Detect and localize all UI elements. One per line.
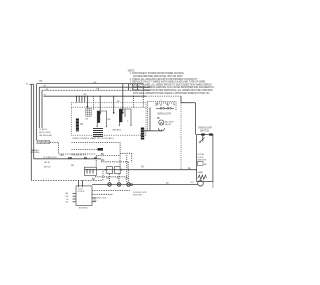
svg-text:BK: BK: [204, 164, 207, 166]
wire y185.8 through lamps: [92, 184, 198, 186]
wire drop to oven light sw: [194, 103, 196, 135]
wire left edge tick: [30, 83, 34, 85]
svg-text:BK: BK: [66, 193, 69, 195]
label BK small: [61, 154, 65, 157]
svg-text:BK: BK: [117, 101, 120, 103]
wire lamp down-left to P3: [144, 130, 162, 135]
junction dot: [105, 169, 106, 170]
clock left pin labels: [66, 193, 70, 203]
svg-text:SWITCH: SWITCH: [200, 130, 209, 132]
wire fuse to right: [50, 142, 58, 153]
relay K1 contact: [97, 111, 106, 126]
svg-text:OVEN CONTROL (PART OF CLOCK AS: OVEN CONTROL (PART OF CLOCK ASY): [72, 137, 114, 140]
svg-text:AC: AC: [166, 181, 169, 184]
wire vertical x128: [127, 162, 129, 170]
label BK on L1 bus: [94, 82, 97, 84]
small dark component on y149: [98, 148, 104, 151]
fuse hatched: [37, 140, 51, 143]
svg-text:BK: BK: [86, 119, 89, 121]
svg-text:RD 40W: RD 40W: [165, 122, 174, 124]
wire dashed y176.8: [95, 176, 127, 178]
svg-text:RD: RD: [66, 196, 69, 198]
arrowhead x87: [86, 106, 88, 108]
svg-text:W: W: [67, 199, 69, 201]
svg-text:RELAYS: RELAYS: [113, 129, 122, 132]
svg-text:RD: RD: [93, 200, 97, 202]
svg-text:P1: P1: [40, 81, 44, 83]
wire dashed y161.8: [101, 161, 128, 163]
door lock motor text: [133, 192, 147, 197]
relay K2 coil: [119, 109, 122, 122]
wire bus CA (y90.3 dotted): [42, 89, 150, 91]
wire dashed y154: [58, 153, 96, 155]
lamp socket symbol: [159, 128, 165, 131]
svg-text:GY: GY: [191, 182, 195, 184]
wire long y159: [34, 158, 102, 160]
clock top feeder stubs: [78, 180, 80, 187]
terminal strip text rows: [43, 157, 57, 168]
label BK mid: [101, 154, 105, 156]
spark module label text: [39, 129, 52, 137]
label GY near motor: [191, 182, 195, 184]
inner dashed box right: [72, 106, 147, 108]
connector block P2 (black ladder): [76, 119, 79, 132]
svg-text:MOTOR: MOTOR: [133, 194, 142, 196]
junction at x131: [131, 184, 133, 186]
svg-text:CA: CA: [96, 88, 100, 91]
plug connector labels: [156, 104, 168, 106]
wire feeder x122 from L1 bus: [122, 84, 124, 114]
svg-text:LAMP: LAMP: [197, 171, 203, 174]
wire bus BK (y96.2): [44, 95, 147, 97]
svg-text:BULB: BULB: [165, 124, 171, 126]
arrowhead x113: [113, 112, 115, 114]
label RD mid: [101, 160, 105, 162]
junction dots on bus: [76, 96, 124, 97]
svg-text:P2: P2: [80, 124, 84, 126]
wire feeder x133: [133, 96, 135, 108]
svg-text:Y(R) BK W GY: Y(R) BK W GY: [71, 155, 87, 157]
feeder verticals to lamps: [109, 174, 111, 182]
wire feeder x93: [92, 96, 94, 110]
wire feeder x143 from L1 bus: [142, 84, 144, 108]
svg-text:WHT CORD: WHT CORD: [39, 132, 51, 134]
label BK above relay2: [117, 101, 120, 103]
oven light plug connectors: [156, 104, 174, 109]
wire cluster top from bus: [156, 103, 174, 106]
label CA mid: [96, 88, 100, 91]
wire vertical x150: [149, 108, 151, 131]
door lock motor circle: [198, 181, 204, 187]
svg-text:OVEN LIGHT: OVEN LIGHT: [157, 114, 172, 116]
arrowhead x122: [122, 112, 124, 114]
clock label: [78, 189, 86, 194]
door switch symbol in box: [200, 138, 205, 142]
label RD lower mid: [71, 165, 75, 167]
svg-text:GY: GY: [141, 166, 145, 168]
svg-text:BK: BK: [157, 118, 161, 120]
oven control dashed box: [72, 103, 147, 136]
label BK: [84, 94, 87, 96]
svg-text:BK W RD: BK W RD: [79, 208, 88, 210]
clock box: [76, 186, 92, 206]
svg-text:BK: BK: [84, 94, 87, 96]
wire feeder x87: [86, 96, 88, 107]
lamp DLB2: [117, 183, 121, 187]
svg-text:GY: GY: [66, 202, 70, 204]
svg-text:CONTROLS. WIRING ERRORS CAN CA: CONTROLS. WIRING ERRORS CAN CAUSE IMPROP…: [133, 86, 214, 89]
svg-text:BK: BK: [108, 119, 111, 121]
oven light text: [157, 114, 172, 121]
oven lamp label: [165, 122, 174, 127]
wire bus L1 top (y83.6): [37, 83, 144, 85]
component box B on y170 wire: [115, 167, 121, 174]
junction dot x133: [133, 96, 134, 97]
oven lamp: [159, 120, 164, 125]
lamp labels: [107, 178, 130, 180]
dashed vertical x120: [119, 142, 121, 169]
oven control caption: [72, 137, 114, 140]
feeder vertical x103: [102, 171, 104, 180]
dashed horizontal y153: [120, 152, 132, 154]
label BK RD inner: [204, 164, 207, 166]
wire left rail 4: [38, 87, 40, 128]
label AC on motor wire: [166, 181, 169, 184]
small box inner marks: [86, 169, 88, 174]
svg-text:2. CHECK ALL GROUND CIRCUITS F: 2. CHECK ALL GROUND CIRCUITS FOR PROPER …: [130, 78, 198, 81]
relay contact dots: [97, 125, 132, 127]
node N label left edge: [26, 83, 28, 85]
text row y154 left: [71, 155, 87, 157]
lamp DLB3: [127, 183, 131, 187]
oven light switch caption: [198, 128, 213, 133]
sensor component hatched: [86, 108, 92, 116]
svg-text:BK: BK: [61, 154, 65, 157]
wire left rail 1: [30, 84, 32, 179]
label BK relay1: [108, 119, 111, 121]
sensor label: [86, 119, 89, 121]
wire feeder x100: [99, 96, 101, 113]
chassis box bottom / GY wire: [84, 169, 197, 171]
wire feeders into control box: [75, 96, 77, 102]
clock left pins: [73, 192, 77, 194]
clock right pin labels: [93, 198, 107, 203]
clock right pins: [92, 190, 130, 192]
label GY: [43, 86, 47, 88]
svg-text:BK RD: BK RD: [44, 166, 51, 168]
relay K1 coil: [97, 111, 100, 123]
lamp DLB1: [108, 183, 112, 187]
label BK above y180: [92, 179, 96, 181]
svg-text:N: N: [26, 83, 28, 85]
label GY: [141, 166, 192, 170]
svg-text:GR W: GR W: [44, 162, 50, 164]
svg-text:SWITCH: SWITCH: [197, 159, 206, 161]
dashed lines below control box: [72, 142, 121, 144]
chassis dashed box right edge: [180, 103, 182, 170]
svg-text:NOTE:: NOTE:: [128, 70, 135, 72]
svg-text:3. REPLACE FAULTY WIRES WITH S: 3. REPLACE FAULTY WIRES WITH SAME GAUGE …: [130, 81, 206, 84]
notes text block: [128, 70, 215, 94]
dashed vertical x126.8: [126, 155, 128, 183]
arrowhead x100: [99, 113, 101, 115]
dashed vertical x96 to small box: [95, 156, 97, 168]
svg-text:GY: GY: [43, 86, 47, 88]
label P2: [80, 124, 84, 126]
inner component small box: [197, 162, 203, 166]
stub ticks from L1 bus: [127, 84, 129, 91]
label RELAYS: [113, 129, 122, 132]
svg-text:Y: Y: [127, 121, 129, 123]
svg-text:CLOCK: CLOCK: [78, 191, 86, 193]
label LAMP inner: [197, 171, 203, 174]
wire feeder x113: [113, 96, 115, 113]
svg-text:L1 BK N: L1 BK N: [39, 129, 47, 131]
switch box terminals: [201, 133, 204, 135]
small box component lower mid: [84, 167, 96, 175]
junction dot: [121, 169, 122, 170]
relay K2 contact: [119, 109, 131, 125]
svg-text:BK: BK: [92, 179, 96, 181]
switch box right: [197, 135, 213, 182]
label P1: [40, 81, 44, 83]
label Y top of assy: [160, 100, 162, 102]
dashes below box right edge: [212, 181, 214, 188]
wire left rail 2: [33, 84, 35, 159]
svg-text:FOR SAFE OPERATION AND AGENCY: FOR SAFE OPERATION AND AGENCY APPROVED W…: [133, 92, 210, 95]
wire left rail 3: [36, 84, 38, 141]
svg-text:BK: BK: [156, 104, 159, 106]
svg-text:1. DISCONNECT POWER FROM POWER: 1. DISCONNECT POWER FROM POWER SOURCE: [130, 73, 185, 75]
label N: [44, 89, 49, 97]
svg-text:SOURCE BEFORE SERVICING UNIT O: SOURCE BEFORE SERVICING UNIT OR PART: [133, 75, 183, 78]
oven light assy dashed box: [148, 102, 177, 132]
svg-text:GR GROUND: GR GROUND: [39, 135, 52, 137]
wire bus N (y87.2): [39, 86, 150, 88]
wire label ticks on y159 line: [68, 157, 97, 159]
svg-text:GROUND: GROUND: [31, 152, 40, 154]
wire y180 from left rail: [31, 179, 103, 182]
label Y relay2: [127, 121, 129, 123]
cabinet ground label: [31, 149, 40, 154]
clock bottom labels: [79, 208, 88, 210]
wire dashed y155.6: [96, 155, 120, 157]
connector block P3 (black ladder): [141, 128, 144, 140]
wire chassis corner to switch: [181, 96, 195, 103]
switch box inner text: [197, 154, 206, 161]
component box A on y170 wire: [107, 167, 113, 174]
transformer T1: [93, 129, 103, 137]
svg-text:OVEN LIGHT: OVEN LIGHT: [198, 128, 213, 130]
terminal stub: [202, 136, 204, 142]
heater zigzag in switch box: [198, 175, 207, 180]
svg-text:RD: RD: [71, 165, 75, 167]
wire left rail 5: [41, 90, 43, 128]
dashed vertical x131: [131, 153, 133, 162]
svg-text:RD: RD: [101, 160, 105, 162]
